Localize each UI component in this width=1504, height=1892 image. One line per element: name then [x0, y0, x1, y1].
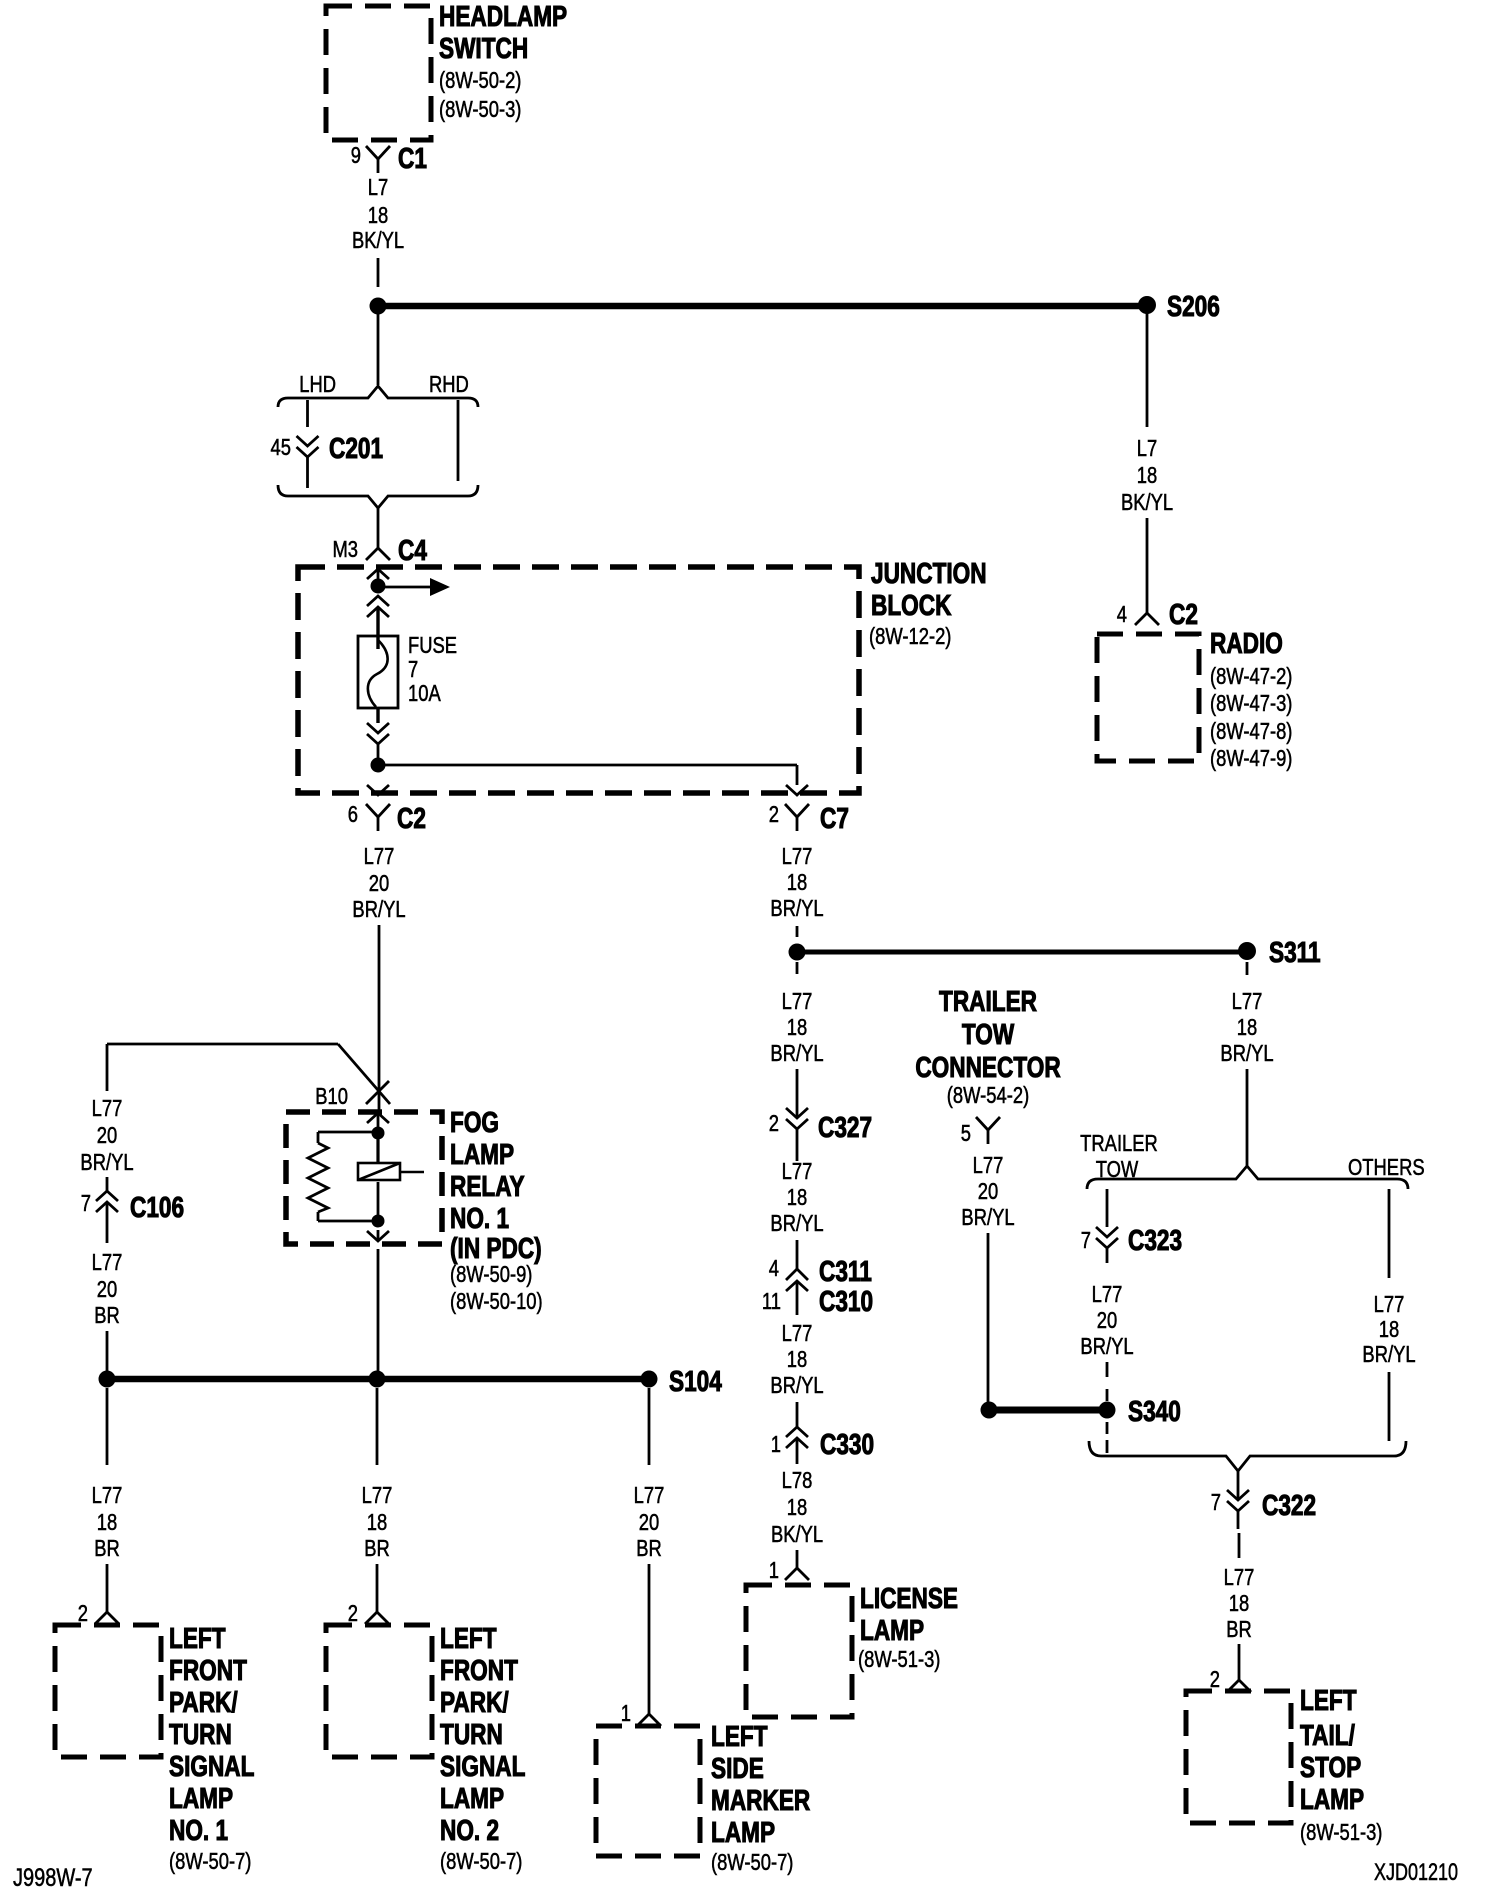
wire trailer tow to S340 — [987, 1233, 990, 1402]
svg-text:BR/YL: BR/YL — [770, 1211, 823, 1236]
side marker lamp label — [711, 1719, 810, 1875]
svg-text:20: 20 — [369, 871, 389, 896]
svg-text:RELAY: RELAY — [450, 1169, 525, 1202]
connector C311 pin 4 / C310 pin 11 — [786, 1269, 808, 1315]
svg-text:18: 18 — [1137, 463, 1157, 488]
connector B10 cross — [366, 1081, 389, 1104]
svg-text:L77: L77 — [92, 1483, 123, 1508]
svg-text:CONNECTOR: CONNECTOR — [915, 1050, 1061, 1083]
wire to split brace — [1246, 1069, 1249, 1166]
splice node S104 — [641, 1371, 658, 1388]
svg-text:S311: S311 — [1269, 935, 1321, 968]
svg-text:C322: C322 — [1262, 1488, 1316, 1521]
wire relay to splice S104 — [377, 1249, 380, 1372]
brace merge to C322 — [1089, 1441, 1406, 1471]
svg-text:(8W-50-7): (8W-50-7) — [711, 1850, 793, 1875]
wire C2 to relay B10 — [378, 925, 381, 1112]
svg-text:1: 1 — [769, 1558, 779, 1583]
svg-text:FOG: FOG — [450, 1105, 499, 1138]
svg-text:(8W-50-2): (8W-50-2) — [439, 68, 521, 93]
wire label L78 18 BK/YL — [771, 1468, 823, 1547]
svg-text:BK/YL: BK/YL — [771, 1522, 823, 1547]
svg-text:11: 11 — [762, 1289, 781, 1314]
svg-text:LAMP: LAMP — [860, 1613, 924, 1646]
svg-text:(8W-51-3): (8W-51-3) — [858, 1647, 940, 1672]
svg-text:45: 45 — [271, 435, 291, 460]
svg-text:18: 18 — [787, 1495, 807, 1520]
radio label — [1210, 626, 1292, 771]
brace split LHD/RHD — [278, 386, 478, 407]
svg-text:L77: L77 — [1232, 989, 1263, 1014]
svg-text:BR/YL: BR/YL — [770, 1373, 823, 1398]
dashed wire below S340 — [1106, 1422, 1109, 1453]
wire stub above splice — [796, 926, 799, 937]
left side marker lamp box — [596, 1726, 700, 1856]
connector C322 pin 7 — [1227, 1471, 1249, 1529]
svg-text:(8W-12-2): (8W-12-2) — [869, 624, 951, 649]
svg-text:(8W-47-9): (8W-47-9) — [1210, 746, 1292, 771]
wire S104 to lamp no.2 — [376, 1388, 379, 1465]
svg-text:(8W-51-3): (8W-51-3) — [1300, 1820, 1382, 1845]
wire label L77 20 BR/YL C323 — [1080, 1282, 1133, 1359]
svg-text:C330: C330 — [820, 1427, 874, 1460]
svg-text:SWITCH: SWITCH — [439, 31, 528, 64]
svg-text:LAMP: LAMP — [450, 1137, 514, 1170]
svg-text:L77: L77 — [634, 1483, 665, 1508]
svg-text:7: 7 — [1081, 1228, 1091, 1253]
svg-text:4: 4 — [1117, 602, 1127, 627]
branch wire to left lamps — [107, 1044, 390, 1104]
svg-text:L77: L77 — [92, 1096, 123, 1121]
headlamp switch label — [439, 0, 567, 123]
wire to connector col1 — [106, 1564, 109, 1600]
wire label L77 18 BR/YL — [770, 989, 823, 1066]
svg-text:(IN PDC): (IN PDC) — [450, 1231, 542, 1264]
wire label L7 18 BK/YL — [352, 175, 404, 253]
lamp no.1 label — [169, 1621, 255, 1874]
wire brace to C323 — [1106, 1189, 1109, 1227]
svg-text:7: 7 — [81, 1191, 91, 1216]
svg-text:PARK/: PARK/ — [169, 1685, 238, 1718]
svg-text:18: 18 — [787, 1347, 807, 1372]
entry chevron at junction block top — [367, 569, 389, 579]
svg-text:(8W-50-3): (8W-50-3) — [439, 97, 521, 122]
svg-text:C7: C7 — [820, 801, 849, 834]
svg-text:PARK/: PARK/ — [440, 1685, 509, 1718]
wire label L77 18 BR col1 — [92, 1483, 123, 1561]
svg-text:(8W-47-3): (8W-47-3) — [1210, 691, 1292, 716]
svg-text:18: 18 — [1237, 1015, 1257, 1040]
wire brace to C4 — [377, 508, 380, 536]
relay internals — [308, 1113, 424, 1241]
svg-text:NO. 2: NO. 2 — [440, 1813, 499, 1846]
junction node trailer — [981, 1402, 998, 1419]
svg-text:L7: L7 — [368, 175, 388, 200]
svg-text:20: 20 — [1097, 1308, 1117, 1333]
svg-text:BK/YL: BK/YL — [1121, 490, 1173, 515]
splice node 1 — [99, 1371, 116, 1388]
svg-text:C2: C2 — [397, 801, 426, 834]
connector C327 pin 2 — [786, 1108, 808, 1161]
svg-text:J998W-7: J998W-7 — [13, 1864, 93, 1892]
brace split trailer tow / others — [1087, 1166, 1408, 1189]
svg-text:B10: B10 — [315, 1084, 348, 1109]
svg-text:4: 4 — [769, 1256, 779, 1281]
wire branch down to C106 — [106, 1044, 109, 1091]
wire label L77 18 BR/YL others — [1362, 1292, 1415, 1367]
wire to splice S104 — [106, 1331, 109, 1372]
wire below junction node — [377, 314, 380, 385]
wire label L77 18 BR/YL mid — [770, 1159, 823, 1236]
svg-text:C1: C1 — [398, 141, 427, 174]
wire to C330 — [796, 1402, 799, 1427]
wire LHD branch — [306, 400, 309, 427]
radio box — [1097, 634, 1199, 761]
svg-text:SIGNAL: SIGNAL — [169, 1749, 255, 1782]
svg-text:18: 18 — [787, 870, 807, 895]
svg-text:(8W-54-2): (8W-54-2) — [947, 1083, 1029, 1108]
svg-text:BR/YL: BR/YL — [770, 896, 823, 921]
svg-text:(8W-50-9): (8W-50-9) — [450, 1262, 532, 1287]
svg-text:BR: BR — [364, 1536, 390, 1561]
wire label L77 18 BR tail — [1224, 1565, 1255, 1642]
brace merge to C4 — [278, 485, 478, 508]
svg-text:M3: M3 — [332, 537, 358, 562]
splice S104 bus — [107, 1376, 649, 1383]
junction node below fuse — [371, 758, 386, 773]
headlamp switch box — [326, 6, 431, 140]
wire to side marker connector — [648, 1564, 651, 1702]
svg-text:NO. 1: NO. 1 — [169, 1813, 228, 1846]
wire label L77 20 BR/YL under C2 — [352, 844, 405, 922]
wire S104 to lamp no.1 — [106, 1388, 109, 1465]
svg-text:L77: L77 — [1224, 1565, 1255, 1590]
wire S104 to side marker — [648, 1388, 651, 1465]
left tail/stop lamp box — [1186, 1691, 1291, 1823]
svg-text:C4: C4 — [398, 533, 427, 566]
fuse input chevrons — [367, 596, 389, 649]
tail/stop lamp label — [1300, 1683, 1382, 1845]
svg-text:STOP: STOP — [1300, 1750, 1361, 1783]
svg-text:18: 18 — [787, 1015, 807, 1040]
svg-text:BR/YL: BR/YL — [80, 1150, 133, 1175]
svg-text:C201: C201 — [329, 431, 383, 464]
wire to C7 inside junction block — [378, 765, 808, 795]
svg-text:BR: BR — [94, 1303, 120, 1328]
svg-text:C310: C310 — [819, 1284, 873, 1317]
connector C2 pin 4 radio — [1135, 601, 1159, 625]
wire stub below splice — [796, 962, 799, 974]
feed arrow to other circuits — [384, 578, 450, 596]
splice S340 — [1099, 1402, 1116, 1419]
dashed wire to S340 — [1106, 1362, 1109, 1401]
wire label L77 18 BR/YL low — [770, 1321, 823, 1398]
svg-text:L77: L77 — [364, 844, 395, 869]
wire label L77 20 BR/YL trailer — [961, 1153, 1014, 1230]
svg-text:L77: L77 — [362, 1483, 393, 1508]
lamp no.1 connector pin 2 — [95, 1600, 119, 1624]
svg-text:(8W-50-7): (8W-50-7) — [169, 1849, 251, 1874]
svg-text:LEFT: LEFT — [440, 1621, 497, 1654]
svg-text:LICENSE: LICENSE — [860, 1581, 958, 1614]
wire label L77 18 BR col2 — [362, 1483, 393, 1561]
svg-text:HEADLAMP: HEADLAMP — [439, 0, 567, 33]
trailer tow connector pin 5 — [976, 1117, 1000, 1144]
wire to C2 radio — [1146, 518, 1149, 601]
wire C322 to tail lamp — [1238, 1533, 1241, 1558]
wire to C327 — [796, 1069, 799, 1118]
splice S311 — [1238, 942, 1256, 960]
lamp no.2 connector pin 2 — [365, 1600, 389, 1624]
svg-text:BR/YL: BR/YL — [352, 897, 405, 922]
tail lamp connector pin 2 — [1227, 1644, 1251, 1692]
svg-text:(8W-50-10): (8W-50-10) — [450, 1289, 543, 1314]
svg-text:18: 18 — [368, 203, 388, 228]
svg-text:1: 1 — [771, 1432, 781, 1457]
svg-text:L77: L77 — [92, 1250, 123, 1275]
connector C106 pin 7 — [96, 1177, 118, 1243]
fog lamp relay label — [450, 1105, 543, 1314]
fuse label — [408, 633, 457, 706]
svg-text:BR/YL: BR/YL — [1080, 1334, 1133, 1359]
splice node 2 — [369, 1371, 386, 1388]
connector C1 pin 9 — [366, 146, 390, 173]
svg-text:S340: S340 — [1128, 1394, 1181, 1427]
svg-text:L77: L77 — [782, 989, 813, 1014]
connector C201 pin 45 — [297, 436, 319, 488]
svg-text:20: 20 — [97, 1277, 117, 1302]
junction block box — [298, 567, 859, 793]
trailer tow branch label — [1080, 1131, 1158, 1182]
svg-text:RHD: RHD — [429, 372, 469, 397]
svg-text:BR: BR — [1226, 1617, 1252, 1642]
svg-text:LEFT: LEFT — [1300, 1683, 1357, 1716]
svg-text:FRONT: FRONT — [440, 1653, 518, 1686]
svg-text:L77: L77 — [782, 1159, 813, 1184]
svg-text:20: 20 — [978, 1179, 998, 1204]
wire to splice S311 — [797, 950, 1247, 955]
wire stub below S311 — [1246, 962, 1249, 975]
connector C4 pin M3 — [366, 536, 390, 560]
junction node on L7 wire — [370, 298, 387, 315]
svg-text:C2: C2 — [1169, 597, 1198, 630]
splice node under C7 — [789, 944, 806, 961]
svg-text:FRONT: FRONT — [169, 1653, 247, 1686]
svg-text:TOW: TOW — [1096, 1157, 1139, 1182]
fuse output chevrons — [367, 708, 389, 758]
junction node above fuse — [371, 579, 386, 594]
svg-text:L77: L77 — [1374, 1292, 1405, 1317]
svg-text:TURN: TURN — [440, 1717, 503, 1750]
svg-text:BR: BR — [636, 1536, 662, 1561]
svg-text:L77: L77 — [782, 844, 813, 869]
wire others to merge brace — [1388, 1372, 1391, 1441]
wire L7 18 BK/YL from C1 — [377, 258, 380, 287]
wire label L77 18 BR/YL under C7 — [770, 844, 823, 921]
svg-text:LAMP: LAMP — [711, 1815, 775, 1848]
side marker connector pin 1 — [637, 1702, 661, 1726]
connector C330 pin 1 — [786, 1427, 808, 1464]
svg-text:20: 20 — [639, 1510, 659, 1535]
svg-text:BR/YL: BR/YL — [961, 1205, 1014, 1230]
svg-text:18: 18 — [367, 1510, 387, 1535]
svg-text:BK/YL: BK/YL — [352, 228, 404, 253]
svg-text:JUNCTION: JUNCTION — [871, 556, 987, 589]
wire label L77 18 BR/YL S311 — [1220, 989, 1273, 1066]
svg-text:SIGNAL: SIGNAL — [440, 1749, 526, 1782]
left front park/turn signal lamp no.1 box — [55, 1625, 161, 1757]
svg-text:BR/YL: BR/YL — [1220, 1041, 1273, 1066]
wire label L77 20 BR col3 — [634, 1483, 665, 1561]
svg-text:LEFT: LEFT — [711, 1719, 768, 1752]
svg-text:C327: C327 — [818, 1110, 872, 1143]
svg-text:18: 18 — [97, 1510, 117, 1535]
svg-text:20: 20 — [97, 1123, 117, 1148]
fuse 7 10A — [358, 636, 398, 708]
svg-text:TURN: TURN — [169, 1717, 232, 1750]
svg-text:9: 9 — [351, 143, 361, 168]
exit chevron to C2 — [367, 785, 389, 795]
svg-text:6: 6 — [348, 802, 358, 827]
svg-text:L77: L77 — [782, 1321, 813, 1346]
svg-text:BR: BR — [94, 1536, 120, 1561]
svg-text:C106: C106 — [130, 1190, 184, 1223]
svg-text:S206: S206 — [1167, 289, 1220, 322]
svg-text:LAMP: LAMP — [1300, 1782, 1364, 1815]
lamp no.2 label — [440, 1621, 526, 1874]
svg-text:2: 2 — [769, 802, 779, 827]
svg-text:LAMP: LAMP — [169, 1781, 233, 1814]
svg-text:BLOCK: BLOCK — [871, 588, 952, 621]
svg-text:18: 18 — [787, 1185, 807, 1210]
svg-text:7: 7 — [1211, 1490, 1221, 1515]
svg-text:TRAILER: TRAILER — [939, 984, 1037, 1017]
wire others branch — [1388, 1189, 1391, 1278]
svg-text:18: 18 — [1379, 1317, 1399, 1342]
svg-text:NO. 1: NO. 1 — [450, 1201, 509, 1234]
svg-text:FUSE: FUSE — [408, 633, 457, 658]
svg-text:RADIO: RADIO — [1210, 626, 1283, 659]
svg-text:7: 7 — [408, 657, 418, 682]
wire S206 to radio — [1146, 313, 1149, 427]
svg-text:LEFT: LEFT — [169, 1621, 226, 1654]
svg-text:OTHERS: OTHERS — [1348, 1155, 1425, 1180]
svg-text:BR/YL: BR/YL — [770, 1041, 823, 1066]
svg-text:L7: L7 — [1137, 436, 1157, 461]
license lamp box — [746, 1585, 852, 1717]
wire to C311 — [796, 1240, 799, 1269]
wire to splice S340 — [989, 1407, 1107, 1414]
license lamp label — [858, 1581, 958, 1672]
svg-text:2: 2 — [769, 1111, 779, 1136]
wire label L7 18 BK/YL radio — [1121, 436, 1173, 515]
wire label L77 20 BR — [92, 1250, 123, 1328]
svg-text:5: 5 — [961, 1121, 971, 1146]
svg-text:(8W-47-8): (8W-47-8) — [1210, 719, 1292, 744]
connector C7 pin 2 — [785, 804, 809, 831]
svg-text:10A: 10A — [408, 681, 441, 706]
svg-text:TAIL/: TAIL/ — [1300, 1718, 1355, 1751]
svg-text:XJD01210: XJD01210 — [1374, 1860, 1458, 1886]
svg-text:TRAILER: TRAILER — [1080, 1131, 1158, 1156]
connector C323 pin 7 — [1096, 1227, 1118, 1263]
connector C2 pin 6 — [366, 804, 390, 831]
svg-text:L78: L78 — [782, 1468, 813, 1493]
svg-text:L77: L77 — [973, 1153, 1004, 1178]
svg-text:C311: C311 — [819, 1254, 872, 1287]
junction block label — [869, 556, 987, 649]
svg-text:S104: S104 — [669, 1364, 722, 1397]
splice S206 — [1138, 296, 1156, 314]
svg-text:TOW: TOW — [962, 1017, 1015, 1050]
wire to splice S206 — [378, 303, 1147, 310]
wire to connector col2 — [376, 1564, 379, 1600]
svg-text:BR/YL: BR/YL — [1362, 1342, 1415, 1367]
svg-text:(8W-47-2): (8W-47-2) — [1210, 664, 1292, 689]
svg-text:1: 1 — [621, 1701, 631, 1726]
svg-text:(8W-50-7): (8W-50-7) — [440, 1849, 522, 1874]
wire RHD branch — [457, 400, 460, 481]
svg-text:18: 18 — [1229, 1591, 1249, 1616]
svg-text:SIDE: SIDE — [711, 1751, 764, 1784]
fog lamp relay box — [286, 1112, 442, 1244]
wire label L77 20 BR/YL left — [80, 1096, 133, 1175]
svg-text:LHD: LHD — [299, 372, 336, 397]
license lamp connector pin 1 — [785, 1550, 809, 1580]
svg-text:MARKER: MARKER — [711, 1783, 810, 1816]
svg-text:LAMP: LAMP — [440, 1781, 504, 1814]
left front park/turn signal lamp no.2 box — [326, 1625, 432, 1757]
svg-text:L77: L77 — [1092, 1282, 1123, 1307]
trailer tow connector label — [915, 984, 1061, 1108]
svg-text:C323: C323 — [1128, 1223, 1182, 1256]
